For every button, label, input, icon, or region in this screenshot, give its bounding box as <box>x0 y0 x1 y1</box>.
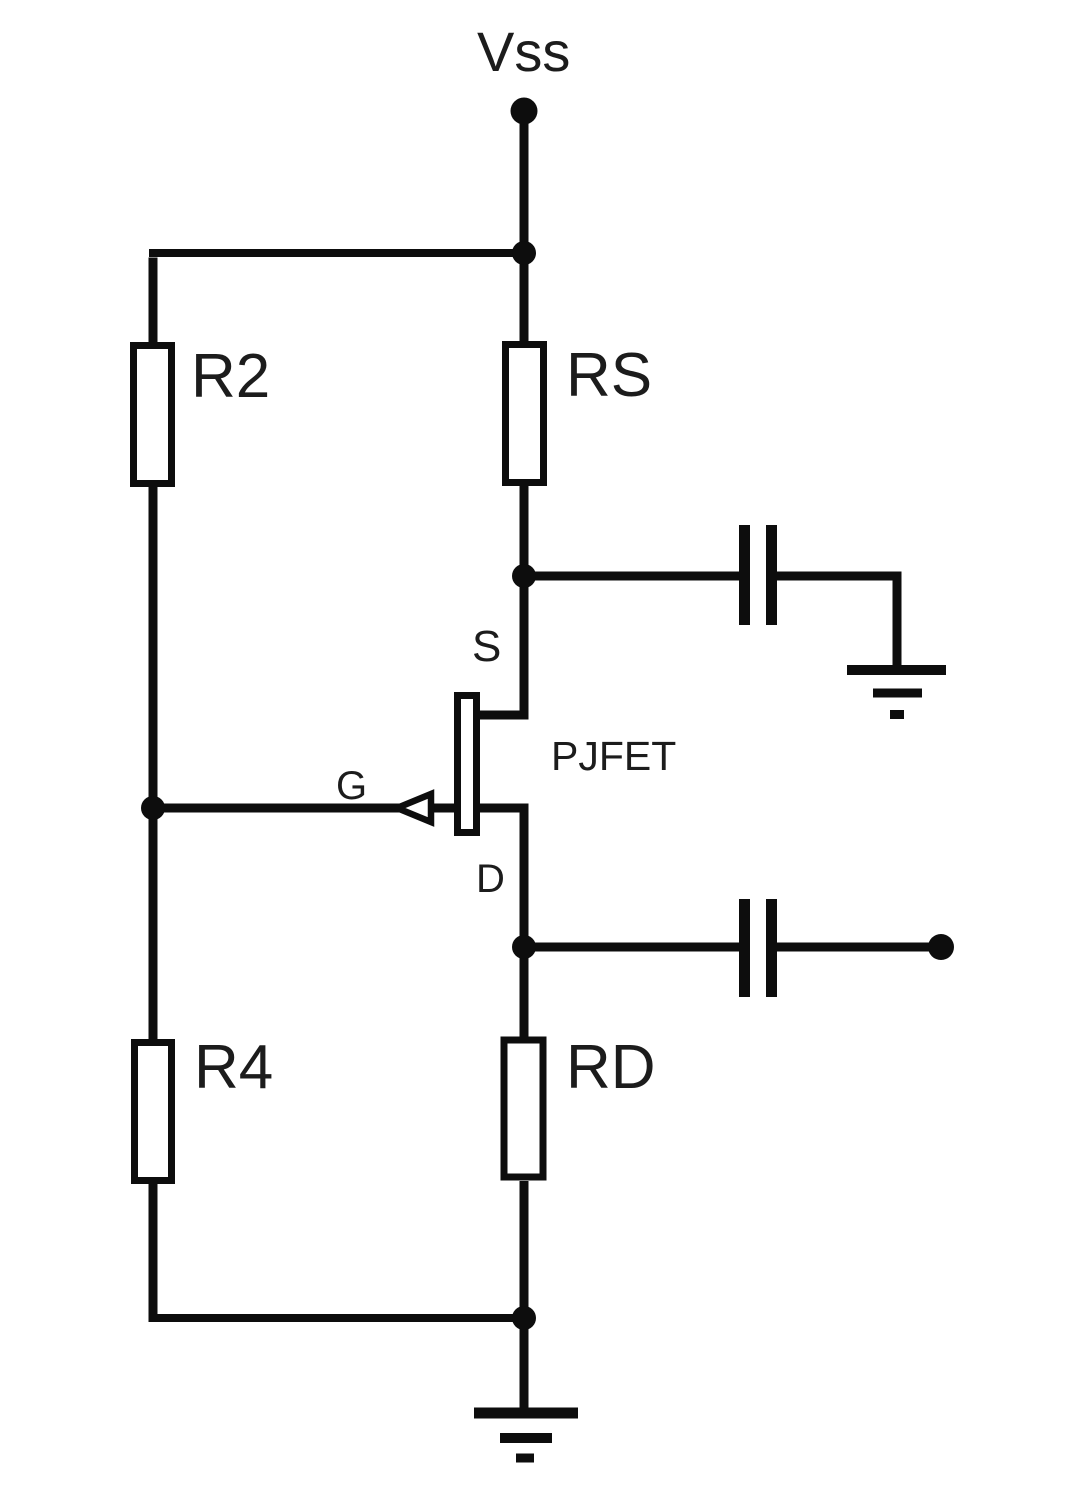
svg-text:R4: R4 <box>194 1033 273 1102</box>
svg-text:G: G <box>336 764 367 808</box>
transistor Q1 PJFET gate bar <box>458 696 477 833</box>
node Vss terminal dot <box>511 98 538 125</box>
svg-text:S: S <box>472 622 501 671</box>
svg-text:R2: R2 <box>191 342 270 411</box>
wire gate <box>153 804 455 813</box>
resistor RS <box>506 345 544 483</box>
wire D node to cap C2 <box>524 943 740 952</box>
wire source stub <box>478 576 524 715</box>
wire cap C1 to ground corner <box>776 576 897 670</box>
svg-text:D: D <box>476 857 505 901</box>
node top junction dot <box>512 241 536 265</box>
ground G2 (bottom) <box>474 1413 578 1458</box>
ground G1 (top right) <box>847 670 946 715</box>
wire RD bottom to bottom junction <box>520 1181 529 1318</box>
capacitor C1 plates <box>745 525 772 625</box>
node bottom junction dot <box>512 1306 536 1330</box>
wire RS bottom to S node <box>520 486 529 581</box>
wire drain stub <box>478 808 524 947</box>
capacitor C2 plates <box>745 899 772 997</box>
resistor RD <box>504 1040 543 1177</box>
wire bottom horizontal <box>153 1314 524 1322</box>
wire D node to RD top <box>520 947 529 1040</box>
svg-text:RS: RS <box>566 341 652 410</box>
wire bottom junction to ground <box>520 1318 529 1412</box>
wire cap C2 to output terminal <box>776 943 941 952</box>
wire RS top <box>520 253 529 342</box>
svg-text:RD: RD <box>566 1033 656 1102</box>
wire top horizontal <box>149 258 158 343</box>
resistor R2 <box>134 346 172 484</box>
wire R4 top <box>149 808 158 1042</box>
resistor R4 <box>135 1043 172 1181</box>
node source junction dot <box>512 564 536 588</box>
wire S node to cap C1 <box>524 572 740 581</box>
wire R4 bottom to bottom wire <box>149 1181 158 1322</box>
node gate junction dot <box>141 796 165 820</box>
wire R2 bottom to gate node <box>149 487 158 813</box>
svg-text:PJFET: PJFET <box>551 733 676 779</box>
svg-text:Vss: Vss <box>477 20 570 83</box>
node output terminal dot <box>928 934 954 960</box>
wire Vss terminal to top junction <box>520 111 529 253</box>
transistor Q1 gate arrow <box>397 794 431 822</box>
node drain junction dot <box>512 935 536 959</box>
